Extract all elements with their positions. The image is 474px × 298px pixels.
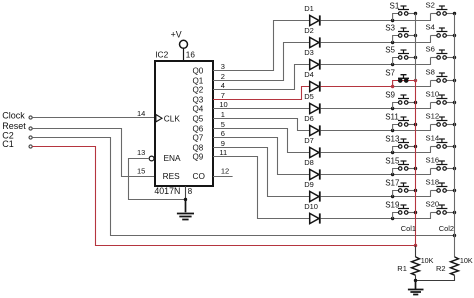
junction S10-Col2 [453,101,456,104]
wire Q4 to D5 anode [213,108,310,110]
wire S18 left lead [431,190,437,192]
svg-text:D10: D10 [304,202,318,211]
junction S9-Col1 [414,101,417,104]
pin 12 CO stub wire [213,176,233,178]
svg-text:10K: 10K [421,256,434,265]
svg-text:3: 3 [221,62,225,71]
wire Q7 to D8 anode [213,138,310,175]
diode D4 [304,70,320,91]
wire S13 right to Col1 [408,146,416,148]
wire D5 row to switches [321,103,431,109]
wire D6 row to switches [321,125,431,131]
wire S12 right to Col2 [446,124,454,126]
svg-text:4: 4 [221,81,225,90]
junction S16-Col2 [453,167,456,170]
svg-text:Q6: Q6 [193,124,204,133]
svg-text:D3: D3 [304,48,314,57]
svg-text:R1: R1 [397,264,407,273]
svg-text:Q0: Q0 [193,66,204,75]
wire S9 right to Col1 [408,102,416,104]
switch S10 [426,90,448,105]
wire S1 right to Col1 [408,13,416,15]
node Reset input terminal [2,121,32,131]
svg-text:7: 7 [221,91,225,100]
diode D9 [304,180,320,201]
wire Col2 full [454,14,456,257]
svg-text:2: 2 [221,72,225,81]
switch S14 [426,134,448,149]
wire Q0 to D1 anode [213,21,310,71]
switch S18 [426,178,448,193]
svg-text:16: 16 [186,51,196,60]
diode D6 [304,114,320,135]
wire S7 closed path (red) [393,81,416,87]
svg-text:S4: S4 [426,23,436,32]
svg-text:Q5: Q5 [193,114,204,123]
wire S2 left lead [431,13,437,15]
wire D1 row to switches [321,14,431,21]
svg-text:D5: D5 [304,92,314,101]
resistor R2 10K [436,256,473,275]
switch S19 [385,200,409,214]
junction row1 elbow [391,19,394,22]
svg-text:6: 6 [221,129,225,138]
power +V supply [171,30,188,49]
wire S11 left elbow [393,125,399,131]
svg-text:S2: S2 [426,1,435,10]
junction S18-Col2 [453,189,456,192]
junction C2-Col2 [453,234,456,237]
switch S2 [426,1,448,16]
svg-text:S17: S17 [385,178,400,187]
junction C1-Col1 (red) [414,244,417,247]
switch S12 [426,112,448,127]
switch S20 [426,200,448,215]
diode D7 [304,136,320,157]
svg-text:14: 14 [137,109,145,118]
svg-text:S12: S12 [426,112,440,121]
wire S6 right to Col2 [446,57,454,59]
junction S14-Col2 [453,145,456,148]
svg-text:CLK: CLK [164,113,181,123]
wire S5 left elbow [393,58,399,65]
svg-text:IC2: IC2 [155,50,168,60]
junction row7 elbow [391,151,394,154]
op IC2 4017N body [155,61,213,186]
switch S6 [426,45,448,60]
svg-text:Col2: Col2 [439,224,454,233]
wire C1 to Col1 line (red) [32,147,415,246]
svg-text:S14: S14 [426,134,440,143]
svg-text:S9: S9 [385,90,395,99]
junction S7-Col1 (red) [414,79,417,82]
junction S13-Col1 [414,145,417,148]
ground IC pin 8 [177,200,194,220]
wire Col1 to R1 [415,246,417,258]
wire S6 left lead [431,57,437,59]
svg-text:C1: C1 [2,139,14,149]
wire row4 to S8 elbow [393,81,431,87]
svg-text:RES: RES [163,171,181,181]
wire S5 right to Col1 [408,57,416,59]
svg-text:Q8: Q8 [193,143,204,152]
wire D10 row to switches [321,213,431,219]
wire ENA to ground [129,159,186,200]
svg-text:Q9: Q9 [193,152,204,161]
wire S17 right to Col1 [408,190,416,192]
switch S17 [385,178,409,192]
wire S3 right to Col1 [408,35,416,37]
junction S15-Col1 [414,167,417,170]
node C1 input terminal [2,139,32,149]
junction S6-Col2 [453,56,456,59]
switch S4 [426,23,448,38]
wire D3 row to switches [321,58,431,65]
resistor R1 10K [397,256,433,275]
svg-text:13: 13 [137,148,145,157]
junction row8 elbow [391,173,394,176]
wire S18 right to Col2 [446,190,454,192]
switch S8 [426,68,448,83]
svg-text:S20: S20 [426,200,440,209]
wire S4 left lead [431,35,437,37]
svg-text:11: 11 [219,148,227,157]
junction S3-Col1 [414,34,417,37]
svg-text:Q1: Q1 [193,76,204,85]
svg-text:Q7: Q7 [193,133,204,142]
wire Clock to CLK pin14 [32,117,155,119]
junction S8-Col2 [453,79,456,82]
svg-text:15: 15 [137,167,145,176]
switch S5 [385,45,409,59]
switch S11 [385,112,409,126]
wire Q2 to D3 anode [213,65,310,90]
wire Col1 upper section [415,14,417,81]
svg-text:S16: S16 [426,156,440,165]
svg-text:+V: +V [171,30,182,40]
svg-text:S11: S11 [385,112,399,121]
wire S8 left lead [431,80,437,82]
wire R2 bottom to R1 [416,275,455,280]
junction row2 elbow [391,41,394,44]
svg-text:Q3: Q3 [193,95,204,104]
svg-text:D9: D9 [304,180,314,189]
wire S16 left lead [431,168,437,170]
junction S4-Col2 [453,34,456,37]
clock symbol on CLK [156,115,162,122]
wire S2 right to Col2 [446,13,454,15]
pin 13 ENA bubble [149,156,154,161]
junction ENA-pin8 [184,198,187,201]
junction row4 elbow (red) [391,85,394,88]
wire D7 row to switches [321,147,431,153]
junction row3 elbow [391,63,394,66]
svg-text:S10: S10 [426,90,440,99]
wire S8 right to Col2 [446,80,454,82]
svg-text:ENA: ENA [164,153,182,163]
svg-text:D2: D2 [304,26,314,35]
wire S14 right to Col2 [446,146,454,148]
svg-text:D4: D4 [304,70,314,79]
svg-text:Clock: Clock [2,111,25,121]
junction row9 elbow [391,195,394,198]
ground bottom [408,281,424,295]
svg-text:10: 10 [219,100,227,109]
svg-text:D1: D1 [304,4,314,13]
wire C2 to Col2 line [32,138,454,236]
wire S4 right to Col2 [446,35,454,37]
wire S10 left lead [431,102,437,104]
junction row6 elbow [391,129,394,132]
svg-text:9: 9 [221,139,225,148]
wire +V to pin 16 [183,48,185,61]
svg-text:Q2: Q2 [193,85,204,94]
junction S19-Col1 [414,211,417,214]
junction S5-Col1 [414,56,417,59]
wire D4 cathode to S7 (red) [321,86,393,88]
svg-text:Reset: Reset [2,121,26,131]
svg-text:10K: 10K [460,256,473,265]
svg-text:1: 1 [221,110,225,119]
wire Q8 to D9 anode [213,148,310,197]
wire Col1 red section [415,81,417,246]
wire Q5 to D6 anode [213,119,310,131]
switch S13 [385,134,409,148]
svg-text:R2: R2 [436,264,446,273]
junction S11-Col1 [414,123,417,126]
svg-text:12: 12 [221,166,229,175]
wire Q3 to D4 anode [213,87,310,100]
junction row5 elbow [391,107,394,110]
svg-text:S13: S13 [385,134,400,143]
svg-text:5: 5 [221,120,225,129]
junction S1-Col1 [414,12,417,15]
svg-text:D8: D8 [304,158,314,167]
wire S15 right to Col1 [408,168,416,170]
junction S12-Col2 [453,123,456,126]
wire S17 left elbow [393,191,399,197]
svg-text:D7: D7 [304,136,314,145]
wire S1 left elbow [393,14,399,21]
diode D8 [304,158,320,179]
junction row10 elbow [391,217,394,220]
wire S3 left elbow [393,36,399,43]
wire S13 left elbow [393,147,399,153]
svg-text:D6: D6 [304,114,314,123]
wire Q1 to D2 anode [213,43,310,81]
junction S20-Col2 [453,211,456,214]
diode D5 [304,92,320,113]
wire D2 row to switches [321,36,431,43]
junction R1-R2-ground [414,279,417,282]
svg-text:CO: CO [193,171,206,181]
svg-text:S3: S3 [385,23,395,32]
switch S7 (pressed) [385,68,409,82]
switch S1 [390,1,410,15]
diode D10 [304,202,320,223]
wire S11 right to Col1 [408,124,416,126]
svg-text:S18: S18 [426,178,440,187]
diode D1 [304,4,320,25]
svg-text:S15: S15 [385,156,400,165]
wire S19 left elbow [393,213,399,219]
svg-text:S7: S7 [385,68,395,77]
wire S19 right to Col1 [408,212,416,214]
svg-text:Q4: Q4 [193,104,204,113]
wire S20 left lead [431,212,437,214]
svg-text:S19: S19 [385,200,400,209]
svg-text:S5: S5 [385,45,395,54]
node Clock input terminal [2,111,32,121]
wire S14 left lead [431,146,437,148]
junction S17-Col1 [414,189,417,192]
wire Q6 to D7 anode [213,129,310,153]
svg-text:8: 8 [188,187,193,196]
wire S9 left elbow [393,103,399,109]
wire pin 8 to ground [185,186,187,200]
switch S3 [385,23,409,37]
svg-text:S8: S8 [426,68,435,77]
node C2 input terminal [2,131,32,141]
junction S2-Col2 [453,12,456,15]
svg-text:4017N: 4017N [154,186,180,196]
wire S12 left lead [431,124,437,126]
switch S9 [385,90,409,104]
wire S10 right to Col2 [446,102,454,104]
wire Reset to RES pin15 [32,129,155,177]
wire S20 right to Col2 [446,212,454,214]
diode D3 [304,48,320,69]
wire R1 bottom [415,275,417,280]
svg-text:Col1: Col1 [401,224,416,233]
diode D2 [304,26,320,47]
switch S15 [385,156,409,170]
wire S15 left elbow [393,169,399,175]
wire S16 right to Col2 [446,168,454,170]
wire D8 row to switches [321,169,431,175]
wire D9 row to switches [321,191,431,197]
svg-text:S6: S6 [426,45,435,54]
switch S16 [426,156,448,171]
wire Q9 to D10 anode [213,157,310,219]
